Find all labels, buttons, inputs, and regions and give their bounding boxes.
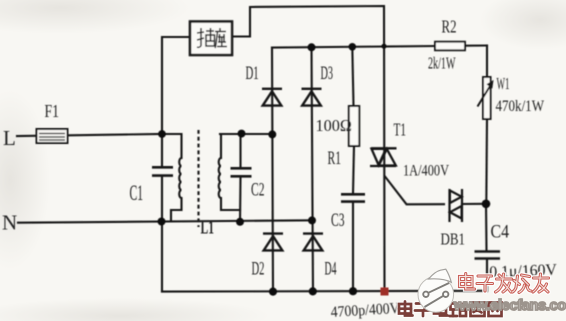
svg-text:www.elecfans.com: www.elecfans.com [453, 298, 566, 314]
svg-text:L: L [3, 126, 16, 150]
svg-text:2k/1W: 2k/1W [428, 54, 456, 73]
svg-text:T1: T1 [394, 120, 407, 140]
svg-text:W1: W1 [497, 74, 510, 93]
svg-text:1A/400V: 1A/400V [403, 163, 450, 180]
svg-text:L1: L1 [201, 218, 215, 239]
svg-text:D2: D2 [252, 259, 265, 280]
svg-text:N: N [2, 211, 17, 235]
svg-text:100Ω: 100Ω [316, 116, 353, 135]
svg-text:470k/1W: 470k/1W [496, 98, 545, 115]
svg-text:D1: D1 [246, 63, 259, 84]
svg-text:R1: R1 [328, 148, 342, 169]
svg-text:C2: C2 [251, 180, 265, 201]
svg-text:R2: R2 [442, 17, 457, 37]
svg-text:C1: C1 [130, 180, 144, 205]
svg-text:D3: D3 [321, 63, 334, 84]
svg-text:F1: F1 [45, 101, 60, 121]
svg-text:C4: C4 [491, 222, 510, 243]
svg-text:DB1: DB1 [441, 230, 466, 249]
svg-text:C3: C3 [331, 210, 345, 231]
svg-text:D4: D4 [325, 259, 337, 280]
